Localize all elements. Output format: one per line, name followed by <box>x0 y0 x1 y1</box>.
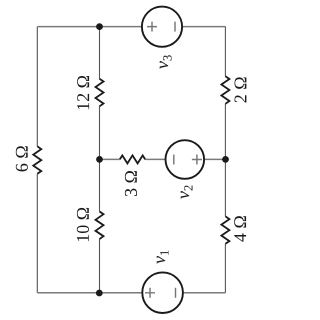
wire right rail top segment <box>224 27 226 77</box>
wire center horizontal node-to-R3 <box>100 158 120 160</box>
wire left rail bottom segment <box>36 174 38 293</box>
voltage source v2 <box>166 140 205 199</box>
node top-middle junction <box>96 23 103 30</box>
resistor 10 Ohm <box>77 208 104 241</box>
wire center horizontal R3-to-v2 <box>145 158 165 160</box>
resistor 3 Ohm <box>120 155 145 196</box>
wire right rail lower-middle segment <box>224 159 226 216</box>
wire middle rail top segment <box>99 27 101 79</box>
wire center horizontal v2-to-node <box>204 158 225 160</box>
node bottom-middle junction <box>96 290 103 297</box>
resistor 4 Ohm <box>221 216 246 244</box>
resistor 2 Ohm <box>221 76 246 104</box>
wire right rail bottom segment <box>224 244 226 293</box>
voltage source v3 <box>142 7 182 69</box>
wire middle rail third segment <box>99 159 101 211</box>
wire middle rail second segment <box>99 106 101 159</box>
node right-middle junction <box>222 156 229 163</box>
wire left rail top segment <box>36 27 38 147</box>
wire top right segment <box>182 26 225 28</box>
voltage source v1 <box>142 250 183 313</box>
wire top left segment <box>37 26 142 28</box>
resistor 12 Ohm <box>77 76 103 109</box>
wire middle rail bottom segment <box>99 239 101 293</box>
wire right rail upper-middle segment <box>224 104 226 160</box>
wire bottom right segment <box>183 292 226 294</box>
resistor 6 Ohm <box>16 146 41 174</box>
node center junction <box>96 156 103 163</box>
wire bottom left segment <box>37 292 142 294</box>
